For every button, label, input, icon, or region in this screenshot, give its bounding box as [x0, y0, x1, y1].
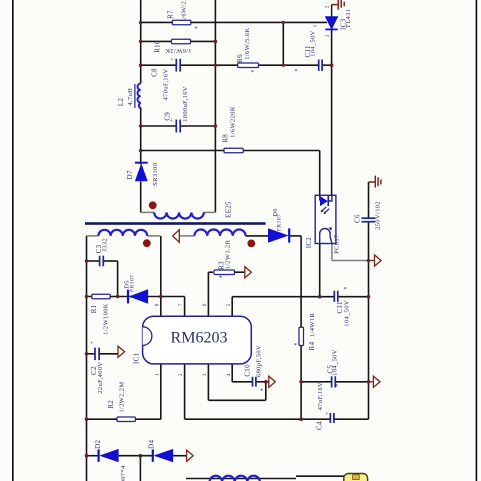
svg-text:2: 2 [178, 373, 184, 376]
svg-text:D7: D7 [127, 170, 134, 179]
svg-text:1/2W1.2R: 1/2W1.2R [225, 239, 232, 269]
svg-text:+: + [325, 411, 329, 417]
svg-text:*: * [294, 68, 297, 75]
junction (331.6,65.2) [330, 63, 334, 67]
svg-text:4: 4 [226, 373, 232, 376]
svg-text:22uF,400V: 22uF,400V [97, 362, 104, 394]
junction (160.8,296.5) [159, 295, 163, 299]
junction (140.7,150.5) [139, 149, 143, 153]
wire gray primary right stub [204, 211, 216, 213]
svg-text:D2: D2 [95, 440, 102, 449]
svg-text:*: * [260, 388, 263, 395]
svg-text:*: * [343, 286, 346, 293]
junction (265.8,381.8) [264, 380, 268, 384]
svg-text:1/6W220R: 1/6W220R [229, 106, 236, 138]
wire vertical output return rail [214, 0, 216, 212]
wire C9 row [141, 125, 176, 127]
junction (319.7,296.7) [318, 295, 322, 299]
secondary polarity dot [143, 239, 151, 247]
primary winding [154, 212, 204, 218]
capacitor C6 [362, 217, 376, 219]
svg-text:7: 7 [178, 303, 184, 306]
junction (140.7,41.4) [139, 40, 143, 44]
junction (368.5,296.7) [367, 295, 371, 299]
aux polarity dot [247, 240, 255, 248]
svg-text:104_50V: 104_50V [344, 300, 351, 327]
svg-text:+: + [170, 119, 174, 125]
svg-text:*: * [294, 342, 297, 349]
resistor R10 [172, 39, 191, 44]
svg-text:*: * [251, 69, 254, 76]
svg-text:*: * [219, 275, 222, 282]
svg-text:1/4W1R: 1/4W1R [309, 313, 316, 337]
power port at R3 [245, 267, 252, 278]
capacitor C11 top [318, 60, 320, 71]
junction (301.1,381.8) [299, 380, 303, 384]
power port at C10 [269, 376, 276, 387]
wire pin6 R3 column [207, 272, 209, 316]
primary polarity dot [149, 201, 157, 209]
svg-text:IC1: IC1 [133, 352, 140, 364]
sheet border left [12, 0, 14, 481]
svg-text:1/6W/2K: 1/6W/2K [165, 47, 192, 54]
svg-text:IC2: IC2 [306, 237, 313, 249]
junction (283.3,22.4) [282, 21, 285, 24]
svg-text:R10: R10 [155, 40, 162, 53]
capacitor C10 [252, 377, 254, 387]
svg-text:470uF,16V: 470uF,16V [163, 68, 170, 100]
svg-text:1/6W/5.6K: 1/6W/5.6K [244, 27, 251, 59]
wire gray aux port tail [179, 235, 194, 237]
svg-text:FR107: FR107 [130, 275, 136, 292]
junction (368.5,381.8) [367, 380, 371, 384]
wire vertical main left output rail [140, 0, 142, 84]
wire C6 ground column [368, 182, 370, 218]
junction (140.4,455.7) [139, 454, 143, 458]
junction (283.3,65.2) [282, 64, 285, 67]
junction (86.5,419.2) [85, 417, 89, 421]
resistor R7 [172, 20, 191, 25]
wire TL431 cathode to opto [331, 29, 333, 195]
wire gray winding stub left secondary [87, 235, 99, 237]
svg-text:*: * [335, 383, 338, 390]
wire pin7 stub [184, 297, 186, 317]
svg-text:+: + [90, 341, 94, 347]
svg-text:250V/102: 250V/102 [374, 201, 381, 230]
transformer core [85, 222, 266, 225]
shunt regulator IC3 TL431 [325, 5, 337, 30]
wire aux winding to D6 [245, 235, 268, 237]
inductor L2 core bar [134, 84, 136, 108]
resistor R2 [117, 417, 135, 422]
svg-text:5: 5 [226, 303, 232, 306]
power port at C2 [118, 346, 125, 357]
wire gray opto emitter row [332, 260, 369, 262]
svg-text:L2: L2 [118, 98, 125, 107]
svg-text:C4: C4 [317, 421, 324, 430]
svg-text:6: 6 [202, 303, 208, 306]
svg-text:R4: R4 [309, 341, 316, 350]
junction (368.5,260.5) [367, 259, 371, 263]
svg-text:R1: R1 [91, 304, 98, 313]
svg-text:D4: D4 [149, 440, 156, 449]
wire bottom input line [186, 478, 296, 480]
diode D5 FR107 [128, 290, 148, 304]
junction (117.6,296.5) [116, 295, 120, 299]
wire opto collector down [319, 244, 321, 297]
svg-text:1N4007*4: 1N4007*4 [120, 465, 127, 481]
optocoupler IC2 PC817 [315, 195, 336, 243]
svg-text:J332: J332 [101, 238, 108, 252]
wire C3 row [87, 260, 100, 262]
svg-text:104_50V: 104_50V [309, 30, 316, 57]
diode D4 1N4007 [153, 449, 173, 462]
wire pin2 ground row with C4 [184, 364, 186, 419]
wire C5 row [301, 381, 331, 383]
svg-text:R2: R2 [108, 400, 115, 409]
svg-text:EE25: EE25 [226, 201, 233, 218]
svg-text:1000uF,16V: 1000uF,16V [182, 86, 189, 122]
op-amp IC1 RM6203 [143, 316, 252, 364]
junction (86.5,455.7) [85, 454, 89, 458]
capacitor C2 [94, 348, 96, 361]
svg-text:4.7uH: 4.7uH [127, 88, 134, 106]
wire gray winding stub left secondary right [147, 235, 160, 237]
svg-text:3: 3 [325, 34, 331, 37]
power port at D4 [187, 450, 194, 461]
capacitor C4 [329, 413, 331, 423]
svg-text:R7: R7 [168, 10, 175, 19]
sheet border right [475, 0, 477, 481]
resistor R1 [92, 294, 110, 299]
svg-text:1/6W/2K: 1/6W/2K [180, 0, 187, 22]
svg-text:R6: R6 [237, 54, 244, 63]
junction (140.7,126) [139, 124, 143, 128]
junction (140.7,22.4) [139, 21, 143, 25]
power port at opto emitter [369, 260, 375, 262]
wire gray primary left stub [141, 211, 155, 213]
wire C8 R6 C11 row [141, 64, 176, 66]
capacitor C8 [175, 59, 177, 72]
svg-text:2: 2 [324, 5, 330, 8]
svg-text:*: * [194, 26, 197, 33]
diode D6 FR107 [268, 228, 289, 242]
svg-text:TL431: TL431 [345, 9, 352, 28]
junction (86.5,296.5) [85, 295, 89, 299]
svg-text:RM6203: RM6203 [171, 329, 228, 346]
capacitor C3 [99, 256, 101, 267]
svg-text:104_50V: 104_50V [332, 349, 339, 376]
inductor L1 bottom (cut) [210, 476, 260, 481]
svg-text:1: 1 [313, 24, 319, 27]
aux winding [194, 229, 245, 235]
svg-text:FR107: FR107 [277, 214, 283, 231]
wire R7 row [141, 21, 327, 23]
resistor R8 [224, 148, 243, 153]
junction (215.4,126) [214, 124, 218, 128]
wire down from D2-D4 row [139, 456, 141, 481]
svg-text:680pF,50V: 680pF,50V [255, 345, 262, 377]
svg-text:C10: C10 [245, 364, 252, 377]
wire pin4 C10 row [231, 364, 233, 382]
resistor R6 [238, 63, 259, 68]
junction (140.7,65.2) [139, 63, 143, 67]
diode D7 SR3100 [135, 163, 148, 181]
secondary winding [98, 230, 147, 236]
capacitor C9 [175, 120, 177, 133]
svg-text:1/2W2.2M: 1/2W2.2M [119, 382, 126, 413]
diode D2 1N4007 [99, 449, 119, 462]
junction (215.4,41.4) [214, 40, 218, 44]
wire vertical divider R7 to R6 [282, 22, 284, 65]
junction (301.1,419.2) [299, 417, 303, 421]
svg-text:C8: C8 [152, 68, 159, 77]
resistor R4 [299, 327, 304, 345]
svg-text:1/2W100K: 1/2W100K [102, 303, 109, 335]
power port at C5 [369, 381, 374, 383]
transformer T1 EE25 [85, 201, 266, 247]
resistor R3 [214, 270, 235, 275]
wire pin1 to R2 [160, 364, 162, 419]
svg-text:3: 3 [202, 373, 208, 376]
junction (215.4,65.2) [214, 64, 217, 67]
wire pin5 stub [231, 297, 233, 317]
inductor L2 [138, 84, 141, 109]
wire winding to pin8 [160, 236, 162, 316]
wire R3 leads [208, 271, 213, 273]
wire R8 row to optocoupler [141, 150, 320, 152]
wire left secondary rail [86, 236, 88, 481]
svg-text:PC817: PC817 [334, 234, 341, 254]
ground at C6 [369, 181, 375, 183]
svg-text:1: 1 [154, 373, 160, 376]
junction (86.5,353.8) [85, 352, 89, 356]
wire R10 row [141, 40, 216, 42]
svg-text:8: 8 [154, 303, 160, 306]
wire R1 D5 row [87, 296, 185, 298]
wire pin5 row with C11 [232, 296, 334, 298]
wire pin3 row [207, 364, 209, 400]
wire D6 to R4 column [290, 235, 301, 237]
capacitor C5 [331, 376, 333, 387]
power port at aux winding (left) [173, 230, 180, 242]
ground at TL431 [332, 4, 338, 6]
wire C2 row [87, 353, 95, 355]
svg-text:C6: C6 [355, 214, 362, 223]
capacitor C11 lower [333, 291, 335, 302]
svg-text:+: + [170, 57, 174, 63]
junction (86.5,261) [85, 259, 89, 263]
fuse F1 (yellow, cut at bottom) [344, 474, 368, 481]
svg-text:SR3100: SR3100 [152, 163, 159, 186]
wire D2 D4 row [87, 455, 99, 457]
svg-text:47uF,16V: 47uF,16V [317, 382, 324, 410]
